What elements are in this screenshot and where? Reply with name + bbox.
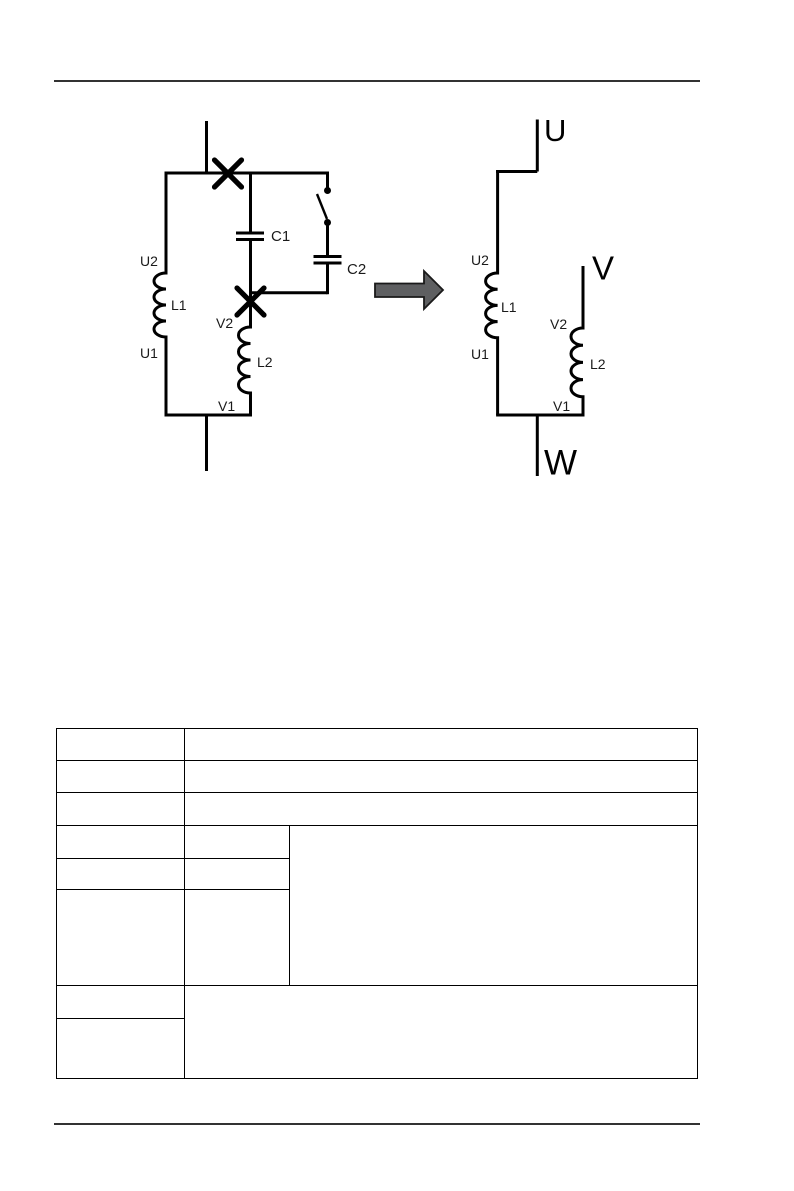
svg-text:L2: L2 [257,354,273,370]
svg-text:U: U [544,113,566,148]
svg-text:V: V [592,250,614,287]
svg-text:U2: U2 [471,252,489,268]
svg-text:L1: L1 [501,299,517,315]
svg-text:C2: C2 [347,261,366,278]
svg-text:W: W [544,444,577,483]
svg-text:V1: V1 [553,398,570,414]
svg-text:U1: U1 [140,345,158,361]
svg-text:C1: C1 [271,228,290,245]
svg-text:L2: L2 [590,356,606,372]
svg-text:V2: V2 [550,316,567,332]
svg-text:L1: L1 [171,297,187,313]
svg-text:U2: U2 [140,253,158,269]
svg-text:U1: U1 [471,346,489,362]
svg-text:V2: V2 [216,315,233,331]
svg-text:V1: V1 [218,398,235,414]
